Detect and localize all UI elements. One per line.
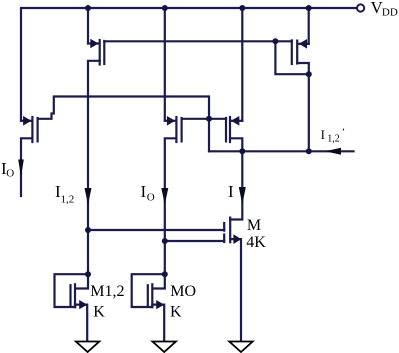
svg-text:DD: DD — [382, 7, 398, 19]
svg-text:K: K — [170, 304, 182, 321]
svg-text:O: O — [147, 192, 155, 204]
svg-text:I: I — [141, 182, 147, 201]
svg-text:1,2: 1,2 — [61, 194, 75, 206]
svg-text:M1,2: M1,2 — [90, 283, 124, 300]
svg-text:MO: MO — [170, 283, 196, 300]
svg-text:1,2: 1,2 — [327, 134, 340, 145]
svg-text:I: I — [321, 127, 325, 142]
svg-text:M: M — [247, 217, 261, 234]
svg-text:K: K — [93, 304, 105, 321]
svg-text:O: O — [6, 168, 14, 180]
svg-text:4K: 4K — [246, 234, 266, 251]
svg-text:’: ’ — [342, 128, 345, 139]
svg-text:I: I — [228, 182, 234, 201]
